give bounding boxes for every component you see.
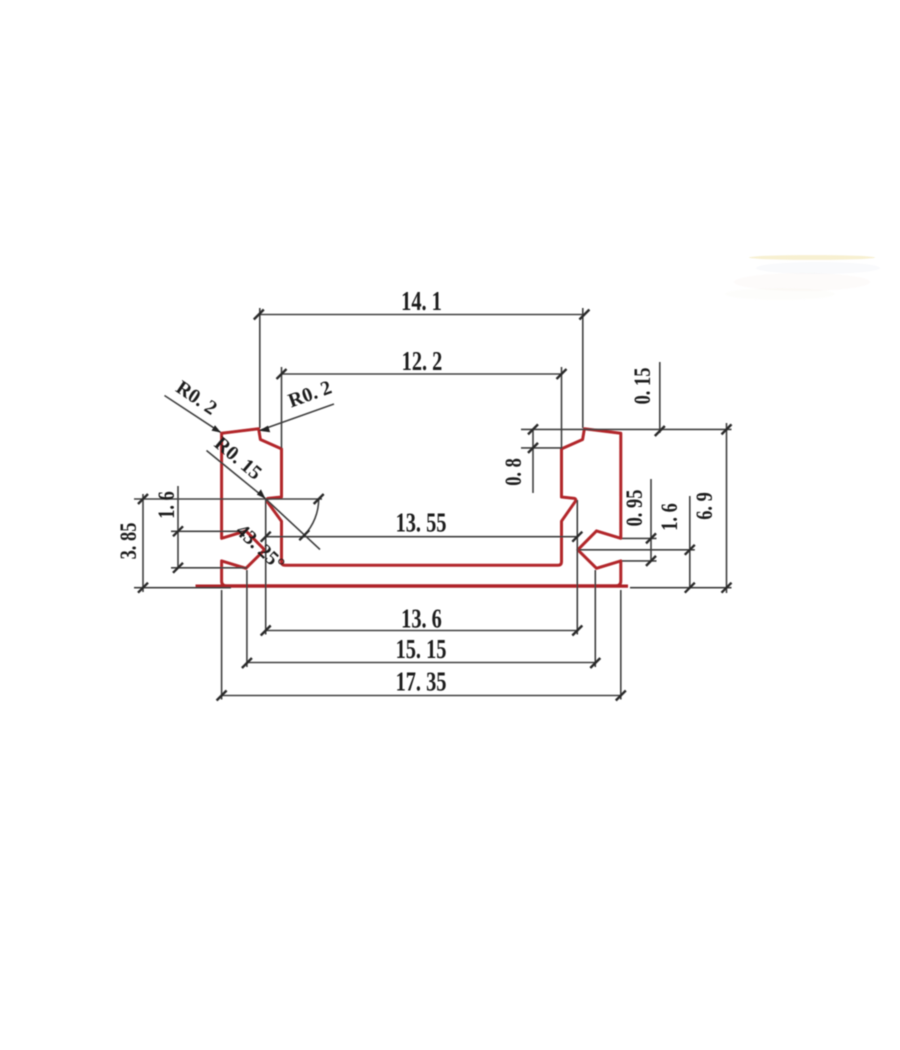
svg-text:17. 35: 17. 35 — [396, 667, 447, 698]
dim 12.2 extension left — [281, 367, 283, 448]
ticks 17.35 — [217, 691, 227, 701]
ticks 6.9 — [722, 424, 732, 434]
dim 6.9 line — [726, 423, 728, 593]
ticks 0.8 — [528, 424, 538, 434]
svg-text:3. 85: 3. 85 — [115, 523, 142, 560]
dim 14.1 line — [259, 314, 585, 316]
leader R0.2 right — [260, 404, 335, 431]
dim 17.35 extension right — [620, 590, 622, 700]
dim 6.9 bottom extension — [630, 587, 732, 589]
ticks 0.95 — [646, 533, 656, 543]
dim 0.8 extension bottom — [521, 447, 563, 449]
ticks 43.25 arc ends — [314, 494, 324, 504]
tick 0.15 — [655, 426, 665, 436]
leader R0.15 — [207, 451, 266, 499]
dim 1.6 right extension from slot vertex — [579, 549, 695, 551]
dim 12.2 line — [282, 373, 562, 375]
dimension lines (black) — [134, 308, 732, 700]
dim 15.15 extension left — [246, 570, 248, 667]
ticks 13.55 — [261, 532, 271, 542]
left extension y=567.8 — [171, 567, 248, 569]
arrow R0.2 right — [259, 426, 270, 433]
svg-text:14. 1: 14. 1 — [401, 286, 442, 317]
svg-text:1. 6: 1. 6 — [153, 491, 180, 519]
dim 1.6 right line — [689, 496, 691, 588]
svg-text:0. 15: 0. 15 — [629, 368, 656, 405]
dim 17.35 extension left — [221, 590, 223, 700]
faint watermark smudge top right — [725, 255, 880, 300]
ticks 15.15 — [242, 658, 252, 668]
left bottom extension y=587.7 — [134, 587, 231, 589]
angle 43.25 leg — [266, 499, 320, 550]
ticks 13.6 — [261, 626, 271, 636]
svg-text:12. 2: 12. 2 — [402, 346, 443, 377]
svg-text:0. 95: 0. 95 — [621, 490, 648, 527]
profile bottom line (overshooting red base line) — [196, 584, 629, 587]
ticks 1.6 right — [685, 545, 695, 555]
svg-text:13. 6: 13. 6 — [401, 604, 442, 635]
dimension texts — [396, 286, 447, 697]
dimension tick marks (45deg slashes) — [138, 310, 732, 701]
dim 12.2 extension right — [561, 367, 563, 448]
top reference line y=429.4 — [521, 428, 732, 430]
dim 0.95 line — [650, 479, 652, 561]
leader arrows (filled) — [212, 425, 271, 499]
svg-text:15. 15: 15. 15 — [396, 634, 447, 665]
arrow R0.2 left — [212, 425, 222, 432]
dim 0.95 extension top — [622, 537, 657, 539]
dim 3.85 line — [142, 494, 144, 592]
ticks 12.2 — [277, 369, 287, 379]
svg-text:1. 6: 1. 6 — [656, 503, 683, 531]
ticks 3.85 — [138, 494, 148, 504]
ticks 1.6 left — [173, 526, 183, 536]
dim 15.15 extension right — [594, 570, 596, 667]
dim 1.6 left line — [177, 486, 179, 568]
svg-text:R0. 2: R0. 2 — [172, 376, 221, 419]
dim 17.35 line — [222, 695, 621, 697]
profile outline (red aluminium extrusion cross-section) — [222, 429, 621, 586]
dim 0.95 extension bottom — [622, 560, 657, 562]
left extension y=531.3 — [171, 530, 248, 532]
dim 13.55 line — [266, 536, 578, 538]
leader R0.2 left — [165, 396, 221, 433]
angle 43.25 arc — [304, 499, 318, 535]
arrow R0.15 — [257, 489, 266, 498]
dim 14.1 extension left — [259, 308, 261, 428]
svg-text:13. 55: 13. 55 — [396, 508, 447, 539]
dim 0.15 vertical line — [659, 362, 661, 433]
extension x=577.3 notch tip down — [576, 500, 578, 635]
extension x=265.7 notch tip down — [265, 499, 267, 635]
svg-text:6. 9: 6. 9 — [691, 492, 718, 520]
dim 14.1 extension right — [582, 308, 584, 428]
left reference line y=499 (angle horizontal leg) — [134, 498, 322, 500]
dim 0.8 line — [532, 429, 534, 493]
dim 13.6 line — [266, 630, 578, 632]
dim 15.15 line — [247, 662, 595, 664]
svg-text:0. 8: 0. 8 — [500, 458, 527, 486]
ticks 14.1 — [254, 310, 264, 320]
